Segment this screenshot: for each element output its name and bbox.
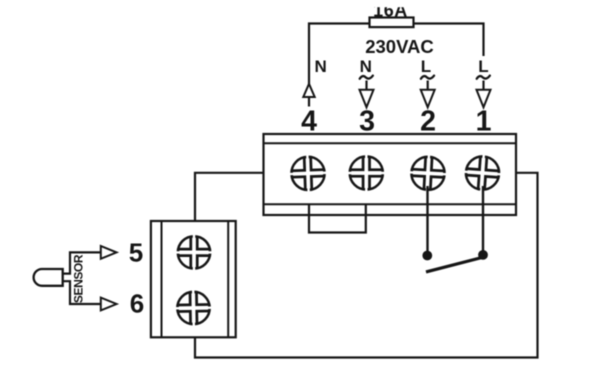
switch lever (open contact) [426,258,482,272]
wire sensor loop: sensor block bottom, around bottom and right side to block right [195,173,538,358]
svg-text:230VAC: 230VAC [365,36,434,57]
svg-text:3: 3 [359,106,375,138]
arrow sensor to terminal 6 (right, open) [101,298,117,311]
svg-text:N: N [315,57,327,76]
fuse F1 [370,18,414,28]
fuse F1 value label 16A (top-cropped) [360,0,420,20]
arrow terminal 3 (down, open) [360,81,374,108]
svg-text:L: L [478,57,488,76]
screw terminal 3 [348,154,385,191]
arrow terminal 1 (down, open) [477,81,491,108]
switch contact dot (from terminal 1) [478,250,488,260]
arrow terminal 4 (up, open) [303,84,314,107]
wire sensor lead to terminal 5 [63,252,101,273]
wire L: fuse right down to terminal 1 [414,24,484,57]
squiggle terminal 3 [360,76,373,79]
svg-text:N: N [360,57,372,76]
wire N: terminal 4 up to fuse left [309,24,370,85]
screw terminal 2 [408,154,447,193]
svg-text:1: 1 [476,106,492,138]
wire sensor loop: block left side to sensor block top [195,173,264,221]
sensor probe (capsule) [34,269,63,286]
screw terminal 6 [175,289,212,326]
svg-text:L: L [421,57,431,76]
svg-text:5: 5 [129,238,143,268]
screw terminal 4 [289,154,327,192]
screw terminal 5 [176,234,212,270]
switch contact dot (from terminal 2) [422,251,432,261]
svg-text:SENSOR: SENSOR [72,254,86,303]
wire sensor lead to terminal 6 [63,281,101,304]
jumper link between terminals 4 and 3 [309,204,366,232]
arrow terminal 2 (down, open) [421,81,435,108]
arrow sensor to terminal 5 (right, open) [101,246,117,259]
svg-text:6: 6 [130,289,144,319]
wire terminal 1 down to switch contact [482,186,484,252]
svg-text:2: 2 [420,106,436,138]
squiggle terminal 2 [421,76,434,79]
squiggle terminal 1 [477,76,490,79]
screw terminal 1 [463,153,503,193]
svg-text:4: 4 [301,106,317,138]
sensor terminal block TB2 (terminals 5-6) [151,221,236,337]
wire terminal 2 down to switch contact [426,186,428,252]
terminal block TB1 (terminals 4-3-2-1) [264,134,517,215]
